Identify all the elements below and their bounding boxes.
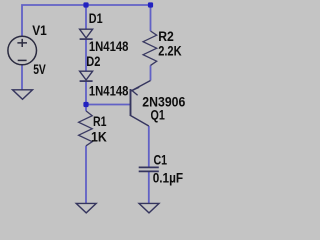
wire base wire node B to Q1 bbox=[86, 104, 131, 106]
svg-text:V1: V1 bbox=[32, 23, 47, 39]
wire node B to R1 bbox=[85, 105, 87, 111]
svg-text:5V: 5V bbox=[33, 62, 46, 78]
capacitor C1 bbox=[139, 167, 159, 171]
wire D1 to D2 bbox=[85, 39, 87, 71]
wire R2 to Q1 emitter bbox=[150, 65, 152, 80]
svg-text:R1: R1 bbox=[93, 114, 107, 130]
resistor R1 bbox=[79, 111, 93, 146]
node junction dot at R2 top corner bbox=[148, 2, 153, 7]
node junction dot at D1 top bbox=[83, 2, 88, 7]
emitter arrow bbox=[132, 87, 139, 95]
wire D2 to node B bbox=[85, 82, 87, 105]
diode D2 bbox=[80, 71, 93, 81]
wire Q1 collector to C1 bbox=[148, 126, 150, 167]
wire top rail with V1 and R2 leads bbox=[22, 5, 151, 36]
svg-text:1N4148: 1N4148 bbox=[89, 84, 129, 100]
wire C1 to ground bbox=[148, 171, 150, 203]
svg-text:D1: D1 bbox=[89, 11, 103, 27]
ground under V1 bbox=[13, 90, 33, 100]
svg-text:Q1: Q1 bbox=[151, 107, 165, 123]
voltage source V1 bbox=[8, 36, 37, 65]
emitter line bbox=[131, 81, 151, 92]
wire R1 to ground bbox=[85, 146, 87, 204]
base bar bbox=[130, 89, 132, 116]
svg-text:2.2K: 2.2K bbox=[158, 43, 182, 59]
collector line bbox=[131, 116, 149, 127]
wire V1 bottom lead bbox=[21, 65, 23, 90]
svg-text:D2: D2 bbox=[86, 54, 100, 70]
ground under C1 bbox=[139, 203, 159, 213]
svg-text:C1: C1 bbox=[154, 152, 168, 168]
wire diode branch: rail to D1 bbox=[85, 5, 87, 29]
svg-text:1N4148: 1N4148 bbox=[89, 39, 129, 55]
diode D1 bbox=[80, 29, 93, 39]
svg-text:0.1µF: 0.1µF bbox=[153, 171, 184, 187]
svg-text:1K: 1K bbox=[91, 129, 107, 145]
resistor R2 bbox=[143, 31, 157, 65]
transistor Q1 2N3906 bbox=[131, 81, 151, 127]
ground under R1 bbox=[76, 203, 96, 213]
node B junction dot bbox=[83, 102, 88, 107]
